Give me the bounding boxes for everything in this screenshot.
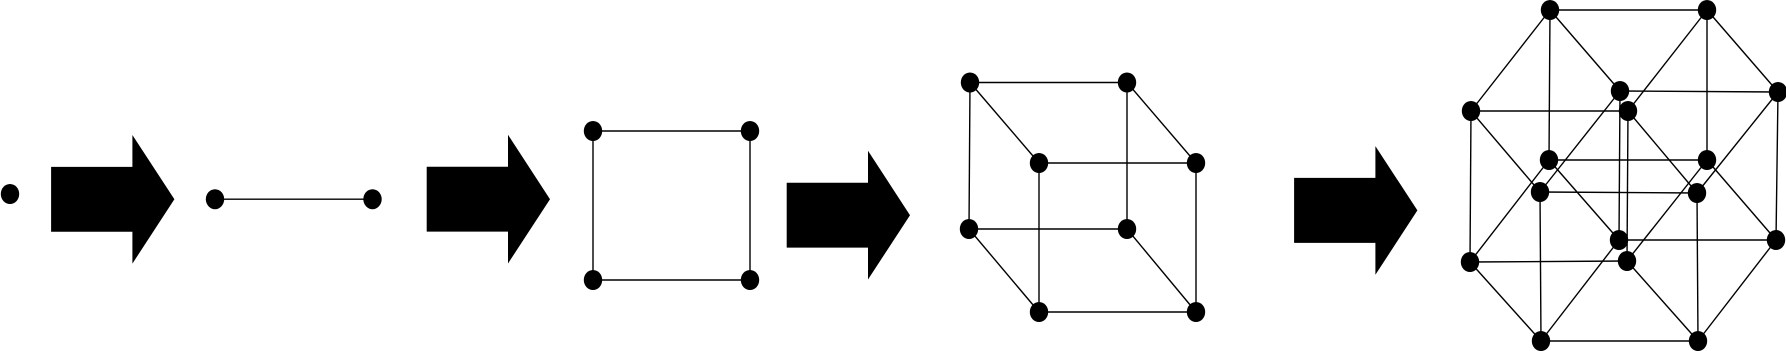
wire A4-A8 (tesseract edge) — [1627, 261, 1698, 341]
node B5 — [1611, 81, 1629, 101]
node A6 — [1688, 183, 1706, 203]
wire B3-B7 (tesseract edge) — [1549, 160, 1619, 240]
wire QTL-QTR (square edge) — [593, 130, 750, 132]
node A2 — [1619, 101, 1637, 121]
wire A5-B5 (tesseract edge) — [1540, 91, 1620, 192]
arrow 2 — [427, 135, 550, 264]
wire B8-B7 (tesseract edge) — [1619, 239, 1776, 241]
arrow 1 — [51, 135, 174, 264]
wire B1-B2 (tesseract edge) — [1550, 9, 1707, 11]
wire A2-B2 (tesseract edge) — [1628, 10, 1707, 111]
wire B3-B1 (tesseract edge) — [1549, 10, 1550, 160]
wire B2-B4 (tesseract edge) — [1706, 10, 1708, 160]
wire C1-C5 (cube edge) — [970, 83, 1039, 164]
node C5 — [1030, 153, 1048, 173]
wire A7-B7 (tesseract edge) — [1541, 240, 1619, 341]
wire A7-A5 (tesseract edge) — [1540, 192, 1541, 341]
wire B5-B6 (tesseract edge) — [1620, 91, 1778, 92]
node A8 — [1689, 331, 1707, 351]
wire A6-A8 (tesseract edge) — [1697, 193, 1698, 341]
wire C7-C5 (cube edge) — [1038, 163, 1040, 312]
arrow 4 — [1294, 146, 1417, 275]
wire B7-B5 (tesseract edge) — [1619, 91, 1620, 240]
wire QBL-QTL (square edge) — [592, 131, 594, 280]
wire A1-B1 (tesseract edge) — [1471, 10, 1550, 111]
node A7 — [1532, 331, 1550, 351]
wire QTR-QBR (square edge) — [749, 131, 751, 280]
node QBR — [741, 270, 759, 290]
node C8 — [1187, 302, 1205, 322]
wire C6-C8 (cube edge) — [1195, 163, 1197, 312]
wire A3-A1 (tesseract edge) — [1470, 111, 1471, 262]
wire C1-C2 (cube edge) — [970, 82, 1127, 84]
node B1 — [1541, 0, 1559, 20]
node A3 — [1461, 252, 1479, 272]
wire A8-A7 (tesseract edge) — [1541, 340, 1698, 342]
node C2 — [1118, 73, 1136, 93]
wire S1-S2 (1-cube edge) — [215, 198, 373, 200]
wire A2-A4 (tesseract edge) — [1627, 111, 1628, 261]
node B4 — [1698, 150, 1716, 170]
wire QBR-QBL (square edge) — [593, 279, 750, 281]
node QTL — [584, 121, 602, 141]
wire A5-A6 (tesseract edge) — [1540, 192, 1697, 193]
wire A6-B6 (tesseract edge) — [1697, 92, 1778, 193]
wire A1-A5 (tesseract edge) — [1471, 111, 1540, 192]
node C4 — [1118, 219, 1136, 239]
wire C4-C8 (cube edge) — [1127, 229, 1196, 312]
wire B4-B8 (tesseract edge) — [1707, 160, 1776, 240]
node S2 — [363, 189, 381, 209]
wire A1-A2 (tesseract edge) — [1471, 110, 1628, 112]
wire C8-C7 (cube edge) — [1039, 311, 1196, 313]
wire C4-C3 (cube edge) — [969, 228, 1127, 230]
wire B1-B5 (tesseract edge) — [1550, 10, 1620, 91]
wire B6-B8 (tesseract edge) — [1776, 92, 1778, 240]
node C6 — [1187, 153, 1205, 173]
wire A8-B8 (tesseract edge) — [1698, 240, 1776, 341]
wire C3-C1 (cube edge) — [969, 83, 970, 230]
wire C2-C4 (cube edge) — [1126, 83, 1128, 230]
wire A3-A7 (tesseract edge) — [1470, 262, 1541, 341]
wire A4-B4 (tesseract edge) — [1627, 160, 1707, 261]
node P0 (0-cube point) — [1, 184, 19, 204]
node B3 — [1540, 150, 1558, 170]
wire C5-C6 (cube edge) — [1039, 162, 1196, 164]
node B7 — [1610, 230, 1628, 250]
node QTR — [741, 121, 759, 141]
arrow 3 — [787, 151, 910, 280]
wire C2-C6 (cube edge) — [1127, 83, 1196, 164]
node B6 — [1769, 82, 1786, 102]
node C7 — [1030, 302, 1048, 322]
node QBL — [584, 270, 602, 290]
node B8 — [1767, 230, 1785, 250]
node A1 — [1462, 101, 1480, 121]
node C3 — [960, 219, 978, 239]
wire C3-C7 (cube edge) — [969, 229, 1039, 312]
node S1 — [206, 189, 224, 209]
node A5 — [1531, 182, 1549, 202]
wire B4-B3 (tesseract edge) — [1549, 159, 1707, 161]
wire A2-A6 (tesseract edge) — [1628, 111, 1697, 193]
wire B2-B6 (tesseract edge) — [1707, 10, 1778, 92]
node B2 — [1698, 0, 1716, 20]
wire A4-A3 (tesseract edge) — [1470, 261, 1627, 262]
node A4 — [1618, 251, 1636, 271]
node C1 — [961, 73, 979, 93]
wire A3-B3 (tesseract edge) — [1470, 160, 1549, 262]
